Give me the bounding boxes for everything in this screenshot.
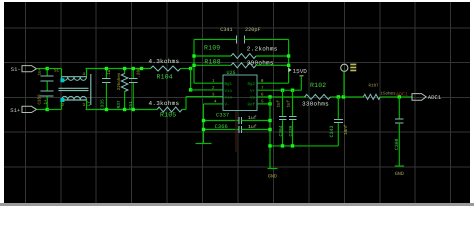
resistor R109: [194, 45, 289, 59]
capacitor C366: [204, 123, 271, 133]
wire to pin3: [186, 96, 223, 98]
capacitor C364: [276, 90, 287, 146]
capacitor C349: [38, 67, 54, 90]
resistor R104: [149, 58, 181, 81]
wire pin6 out: [257, 96, 306, 98]
junction R108 right: [287, 64, 290, 67]
wire gnd rail: [270, 145, 338, 147]
ground V-: [196, 143, 212, 145]
wire ref riser: [269, 97, 271, 168]
resistor R102: [302, 82, 330, 107]
resistor R108: [194, 58, 289, 68]
svg-text:R105: R105: [160, 112, 176, 119]
svg-text:R37: R37: [116, 100, 122, 108]
svg-text:4.3kohms: 4.3kohms: [149, 58, 180, 65]
junction gnd rail c: [291, 144, 294, 147]
svg-text:C308: C308: [394, 138, 400, 150]
wire pin4: [204, 103, 223, 105]
svg-text:ADC1: ADC1: [396, 92, 408, 98]
svg-text:ADC1: ADC1: [428, 94, 442, 101]
svg-text:V-: V-: [225, 103, 230, 108]
svg-text:Vo: Vo: [250, 96, 256, 101]
svg-text:1u+: 1u+: [38, 67, 43, 75]
svg-text:GND: GND: [268, 174, 277, 180]
svg-text:C350: C350: [38, 94, 43, 105]
svg-text:R102: R102: [310, 82, 326, 89]
capacitor C350: [38, 91, 54, 109]
ground C308: [395, 166, 404, 177]
capacitor C335: [99, 69, 112, 111]
svg-text:Rg1: Rg1: [225, 82, 233, 87]
svg-text:.1u: .1u: [107, 69, 112, 77]
svg-text:330ohms: 330ohms: [302, 100, 329, 107]
wire dark stub: [235, 111, 237, 152]
svg-text:15VD: 15VD: [293, 68, 308, 75]
wire supply riser: [300, 77, 302, 91]
wire pin8: [257, 82, 289, 84]
wire top rail right: [86, 68, 151, 70]
bottom gray strip: [0, 203, 474, 206]
junction C343 node: [337, 95, 340, 98]
svg-text:GND: GND: [395, 171, 404, 177]
power +15VD: [288, 68, 307, 76]
wire to pin2: [191, 89, 223, 91]
resistor R105: [149, 100, 183, 119]
polarity dot primary: [60, 78, 64, 82]
svg-text:C335: C335: [99, 99, 105, 110]
svg-text:2.2kohms: 2.2kohms: [247, 46, 278, 53]
junction R104 corner: [189, 67, 192, 70]
svg-text:1+: 1+: [44, 99, 49, 105]
junction C337 right: [268, 119, 271, 122]
wire R104 to corner: [181, 68, 191, 70]
junction C337 left: [202, 119, 205, 122]
junction bypass B: [291, 89, 294, 92]
svg-text:V+: V+: [250, 89, 256, 94]
capacitor C339: [286, 90, 297, 146]
junction S1+ node: [46, 108, 49, 111]
svg-text:R108: R108: [204, 58, 220, 65]
junction ref pin2: [268, 102, 271, 105]
svg-text:R104: R104: [157, 74, 173, 81]
svg-text:C366: C366: [215, 123, 228, 130]
junction top rail B: [140, 67, 143, 70]
svg-text:U25: U25: [227, 70, 236, 76]
capacitor C341: [220, 27, 260, 43]
junction R109 right: [287, 54, 290, 57]
svg-text:Rg2: Rg2: [247, 82, 255, 87]
junction pin2 node: [189, 88, 192, 91]
junction ref cross: [268, 95, 271, 98]
svg-text:C341: C341: [220, 27, 232, 33]
polarity dot secondary: [60, 98, 64, 102]
junction R37 bottom: [123, 108, 126, 111]
wire S1+ to node: [37, 109, 48, 111]
connector S1+: [10, 106, 36, 114]
connector ADC1: [412, 94, 442, 101]
wire to ADC1: [380, 96, 412, 98]
svg-text:10nf: 10nf: [343, 124, 349, 135]
junction R37 top: [123, 67, 126, 70]
svg-text:1uf: 1uf: [248, 115, 257, 121]
resistor R187: [363, 84, 396, 100]
wire pin5 ref: [257, 103, 270, 105]
wire R102 to filter: [331, 96, 364, 98]
junction C308 node: [398, 95, 401, 98]
junction C51 top: [132, 67, 135, 70]
svg-text:S1-: S1-: [11, 66, 21, 73]
svg-text:C337: C337: [216, 112, 229, 119]
ground mid: [268, 169, 278, 180]
wire R104 down: [190, 69, 192, 90]
junction bypass A: [281, 89, 284, 92]
capacitor C337: [204, 112, 271, 125]
wire bottom rail right: [86, 109, 158, 111]
resistor R37: [116, 69, 128, 110]
junction gnd rail a: [268, 144, 271, 147]
wire gain top: [194, 38, 236, 40]
svg-text:C339: C339: [288, 125, 294, 136]
capacitor C51: [128, 67, 142, 110]
svg-text:C364: C364: [278, 125, 284, 136]
svg-text:S1: S1: [54, 69, 60, 74]
svg-text:S1+: S1+: [10, 107, 20, 114]
junction R108 left: [192, 64, 195, 67]
wire V- riser: [203, 104, 205, 143]
wire top rail left: [47, 68, 61, 70]
wire gain right vertical: [288, 39, 290, 83]
capacitor C343: [329, 97, 349, 146]
junction gnd rail b: [281, 144, 284, 147]
wire R105 to corner: [182, 109, 186, 111]
wire R105 up: [185, 97, 187, 110]
wire S1- to node: [37, 68, 48, 70]
svg-text:390ohms: 390ohms: [247, 60, 274, 67]
junction testpoint node: [342, 95, 345, 98]
junction C335 top: [105, 67, 108, 70]
svg-text:R109: R109: [204, 45, 220, 52]
junction C366 right: [268, 128, 271, 131]
test point TP1: [341, 64, 357, 97]
junction R109 left: [192, 54, 195, 57]
junction C51 bottom: [132, 108, 135, 111]
svg-text:220pF: 220pF: [245, 27, 261, 33]
svg-text:C343: C343: [329, 125, 335, 137]
svg-text:1uf: 1uf: [248, 124, 257, 130]
transformer L7: [59, 69, 92, 110]
wire gain left vertical: [193, 39, 195, 83]
wire bottom rail left: [47, 109, 61, 111]
connector S1-: [11, 66, 37, 73]
svg-text:4.3kohms: 4.3kohms: [149, 100, 180, 107]
wire pin1: [194, 82, 223, 84]
junction S1- node: [46, 67, 49, 70]
wire pin7 to supply: [257, 89, 301, 91]
svg-text:R187: R187: [369, 84, 380, 89]
junction C366 left: [202, 128, 205, 131]
junction C335 bottom: [105, 108, 108, 111]
wire gain top b: [244, 38, 288, 40]
capacitor C308: [394, 97, 403, 166]
svg-text:L7: L7: [87, 101, 92, 107]
op-amp U25: [223, 70, 257, 111]
